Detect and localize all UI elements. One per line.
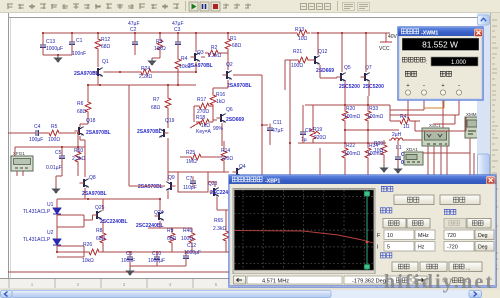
- capacitor C13: [42, 33, 44, 41]
- wire output node: [345, 129, 399, 131]
- svg-text:-XBP1: -XBP1: [265, 179, 280, 185]
- capacitor C9: [395, 153, 401, 164]
- capacitor C2: [134, 33, 136, 38]
- wire orange probe: [424, 107, 444, 109]
- sheet left border: [8, 13, 10, 289]
- capacitor C5: [61, 147, 63, 152]
- resistor R3: [159, 33, 161, 37]
- resistor R21: [285, 59, 295, 61]
- resistor R34: [365, 145, 371, 161]
- instrument XMM1: [465, 117, 479, 138]
- transistor Q3: [191, 53, 200, 62]
- wire node bus: [261, 75, 263, 176]
- svg-text:+: +: [441, 83, 444, 89]
- toolbar: [0, 0, 500, 13]
- horizontal scrollbar: [0, 288, 500, 298]
- svg-text:Deg: Deg: [478, 245, 488, 251]
- transistor Q7: [361, 73, 370, 82]
- regulator U1 TL431ACLP: [53, 208, 61, 214]
- svg-text:10: 10: [387, 233, 393, 239]
- transistor Q8: [80, 179, 89, 188]
- wire feedback loop U1: [57, 214, 84, 216]
- ground below R39: [381, 165, 388, 172]
- bode plotter dialog XBP1: [229, 175, 496, 287]
- transistor Q24: [155, 212, 164, 221]
- wire bottom bus: [57, 251, 86, 253]
- wire top power rail: [43, 32, 294, 34]
- capacitor C7 110pF: [178, 172, 208, 192]
- transistor Q6: [217, 114, 226, 123]
- capacitor C3: [177, 33, 179, 38]
- svg-text:-179.362 Deg: -179.362 Deg: [352, 278, 386, 284]
- wattmeter dialog XWM1: [398, 27, 483, 100]
- svg-text::: :: [426, 60, 427, 66]
- wattmeter terminals: [405, 90, 410, 95]
- svg-text:MHz: MHz: [418, 233, 429, 239]
- svg-text:4.571 MHz: 4.571 MHz: [262, 278, 289, 284]
- wire chassis return bus: [8, 271, 229, 273]
- capacitor C8: [300, 128, 306, 139]
- wire instrument leads: [427, 146, 429, 176]
- bode readout bar: [231, 274, 427, 285]
- wire input line: [8, 132, 33, 134]
- ground below C9: [395, 166, 402, 173]
- potentiometer R18 Key=A: [196, 119, 212, 125]
- transistor Q19: [159, 129, 168, 138]
- resistor R14: [221, 148, 227, 164]
- resistor R12: [97, 33, 99, 36]
- svg-text:720: 720: [447, 233, 456, 239]
- svg-text:-: -: [458, 82, 460, 89]
- resistor R22: [342, 145, 348, 161]
- svg-text:I: I: [377, 245, 379, 251]
- bode in/out terminals: [396, 278, 401, 283]
- resistor R16: [212, 88, 214, 92]
- resistor R2: [201, 56, 205, 58]
- capacitor C12: [185, 252, 187, 254]
- instrument XSC1: [422, 128, 449, 146]
- power VCC 40V: [385, 33, 387, 42]
- ground below R3: [149, 58, 156, 65]
- wire feedback loop U2: [57, 245, 84, 247]
- resistor R4: [177, 53, 179, 56]
- wattmeter display 81.552 W: [402, 38, 479, 51]
- instrument XDA1: [404, 152, 423, 165]
- svg-text:+: +: [406, 83, 409, 89]
- junction dots: [42, 32, 44, 34]
- resistor R65: [223, 228, 229, 244]
- svg-text:1.000: 1.000: [451, 60, 467, 66]
- resistor R25: [180, 156, 188, 158]
- ground mid-left: [53, 186, 60, 193]
- svg-text:-XWM1: -XWM1: [421, 31, 438, 37]
- transistor Q25: [93, 211, 102, 220]
- resistor R8: [100, 230, 106, 246]
- svg-text:5: 5: [387, 245, 390, 251]
- resistor R5: [46, 130, 62, 136]
- svg-text:Deg: Deg: [478, 233, 488, 239]
- regulator U2 TL431ACLP: [53, 239, 61, 245]
- svg-text:81.552 W: 81.552 W: [422, 40, 458, 50]
- capacitor C4: [32, 130, 43, 136]
- resistor R20: [342, 108, 348, 124]
- bode plot screen: [233, 189, 375, 275]
- capacitor C1: [71, 33, 73, 38]
- power factor row: [402, 57, 407, 62]
- instrument XFG1: [11, 156, 33, 171]
- transistor Q9: [166, 182, 175, 191]
- bode control section: [380, 253, 385, 258]
- voltage / current labels: [405, 71, 410, 76]
- resistor R13: [294, 30, 310, 36]
- vertical scrollbar: [477, 13, 490, 289]
- right panel strip: [490, 13, 500, 289]
- resistor R7: [167, 85, 169, 95]
- bode mode section: [381, 186, 386, 191]
- resistor R39: [381, 142, 387, 158]
- sheet top border: [9, 17, 478, 19]
- resistor R33: [365, 108, 371, 124]
- capacitor C10: [156, 252, 158, 255]
- transistor Q4: [233, 168, 242, 177]
- bode phase curve: [235, 231, 374, 244]
- inductor L1 2µH: [389, 138, 405, 140]
- wire cap bottom bus: [130, 265, 186, 267]
- resistor R6: [87, 85, 89, 99]
- transistor Q12: [311, 56, 320, 65]
- potentiometer R19: [310, 126, 316, 142]
- resistor R46: [189, 230, 195, 246]
- svg-text:-720: -720: [447, 245, 458, 251]
- svg-text:Hz: Hz: [418, 245, 425, 251]
- resistor R17: [194, 105, 196, 107]
- svg-text:hifidiy.net: hifidiy.net: [384, 271, 494, 293]
- transistor Q18: [75, 127, 84, 136]
- resistor R10: [77, 147, 79, 149]
- wire wattmeter leads: [407, 100, 409, 121]
- transistor Q23: [210, 188, 219, 197]
- sheet ruler row: [0, 278, 470, 289]
- bode cursor: [366, 190, 368, 270]
- ground bottom: [127, 268, 134, 275]
- transistor Q1: [94, 68, 103, 77]
- ground below C13: [55, 55, 62, 62]
- resistor R26: [86, 249, 102, 255]
- resistor R41: [390, 120, 397, 122]
- svg-text:-: -: [423, 82, 425, 89]
- transistor Q5: [337, 73, 346, 82]
- capacitor C6: [129, 252, 131, 255]
- resistor R24: [120, 71, 138, 73]
- capacitor C11: [262, 124, 268, 126]
- bode horizontal section: [380, 208, 385, 213]
- transistor Q2: [223, 71, 232, 80]
- resistor R9: [169, 230, 175, 246]
- resistor R1: [227, 33, 229, 36]
